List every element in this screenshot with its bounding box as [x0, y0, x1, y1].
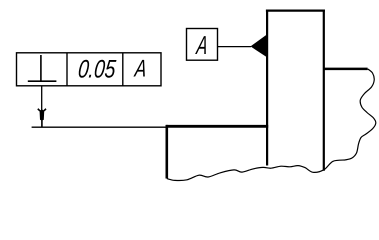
svg-text:0.05: 0.05 — [77, 56, 118, 84]
